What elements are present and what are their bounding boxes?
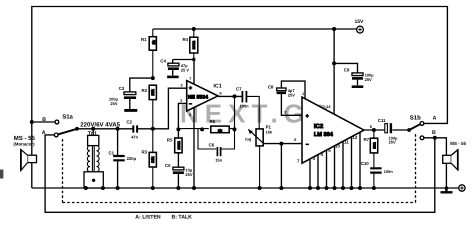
svg-text:+: +	[189, 86, 192, 92]
switch S1b	[407, 122, 424, 140]
svg-text:C11: C11	[378, 118, 386, 123]
svg-text:R2: R2	[142, 88, 148, 93]
node C1 tap	[116, 127, 120, 131]
svg-text:3: 3	[181, 83, 183, 87]
transformer Tr1	[84, 129, 105, 190]
svg-text:C9: C9	[344, 67, 350, 72]
capacitor C1 220u	[113, 129, 125, 190]
wire S1a pole to signal node	[77, 88, 187, 129]
wire bottom interconnect (S1a A to S1b B)	[45, 135, 435, 212]
wire S1a B contact	[32, 121, 55, 123]
svg-text:11: 11	[344, 139, 349, 144]
svg-text:B: B	[432, 130, 436, 136]
svg-text:2: 2	[284, 110, 286, 114]
supply rail 15V	[153, 28, 357, 30]
svg-text:A: A	[42, 130, 46, 136]
svg-text:Tr 1: Tr 1	[88, 131, 97, 137]
resistor R3 22k	[149, 129, 156, 190]
svg-text:MS - 55: MS - 55	[450, 141, 466, 146]
svg-text:NE 5534: NE 5534	[188, 94, 208, 100]
potentiometer P1 10k log	[248, 129, 264, 190]
wire left speaker to S1a B junction	[31, 122, 33, 188]
svg-text:R7: R7	[364, 137, 370, 142]
node supply rail pin14	[332, 27, 336, 31]
svg-text:IC1: IC1	[213, 83, 221, 89]
svg-text:R5: R5	[167, 138, 173, 143]
svg-text:7: 7	[189, 77, 191, 81]
node R6 right	[233, 127, 237, 131]
node C3 tap	[151, 76, 155, 80]
wire IC1 output	[218, 95, 242, 97]
svg-text:100Ω: 100Ω	[177, 141, 181, 150]
resistor R7 10	[370, 130, 377, 167]
capacitor C3 100u 25V	[124, 78, 153, 110]
pin 4 wire IC1 to ground	[193, 108, 195, 188]
wire pin6 node to ground	[280, 144, 282, 188]
wire wiper to IC2 pin 6	[264, 143, 302, 145]
svg-text:S1a: S1a	[62, 113, 73, 120]
svg-text:100n: 100n	[240, 103, 250, 108]
resistor R5 100	[175, 138, 182, 153]
svg-text:IC2: IC2	[314, 123, 324, 130]
svg-text:6: 6	[294, 138, 296, 142]
svg-text:A: LISTEN: A: LISTEN	[135, 215, 161, 221]
resistor R6 1k	[178, 126, 234, 133]
node pin6 ground drop	[279, 142, 283, 146]
svg-text:log: log	[245, 136, 252, 141]
svg-text:15n: 15n	[215, 157, 222, 162]
svg-text:25V: 25V	[110, 101, 117, 106]
svg-text:C6: C6	[209, 142, 215, 147]
resistor R4 100	[190, 27, 198, 62]
svg-text:22k: 22k	[151, 88, 155, 95]
svg-text:100Ω: 100Ω	[192, 41, 196, 50]
resistor R1 1k	[149, 29, 156, 78]
terminal ground bottom right	[459, 185, 465, 191]
svg-text:47n: 47n	[131, 135, 138, 140]
svg-text:C1: C1	[109, 151, 115, 156]
ground symbol bottom right	[441, 188, 453, 192]
op-amp IC1 NE5534	[187, 81, 218, 111]
capacitor C5 10u 25V	[173, 153, 184, 190]
svg-text:8: 8	[370, 125, 372, 129]
svg-text:R1: R1	[141, 37, 147, 42]
svg-text:R6: R6	[210, 119, 216, 124]
capacitor C7 100n	[242, 91, 259, 129]
amp IC2 LM384	[302, 97, 364, 163]
node signal-transformer	[91, 127, 95, 131]
node pin6 ground	[279, 186, 283, 190]
svg-text:(Monacor): (Monacor)	[13, 141, 35, 146]
node pin4 ground	[192, 186, 196, 190]
svg-text:25 V: 25 V	[181, 68, 190, 73]
wire IC2 output	[364, 129, 409, 131]
svg-text:+: +	[306, 113, 309, 119]
svg-text:220µ: 220µ	[127, 156, 137, 161]
speaker LS1 MS-55 left	[21, 150, 37, 171]
scan smudge left edge	[0, 170, 3, 179]
svg-text:10: 10	[335, 144, 340, 149]
wire top loop (S1b A to left speaker)	[32, 7, 448, 124]
svg-text:6: 6	[220, 92, 222, 96]
svg-text:15V: 15V	[355, 19, 365, 25]
svg-text:C5: C5	[165, 163, 171, 168]
node R4/C4/pin7	[192, 58, 195, 61]
svg-text:C4: C4	[160, 59, 166, 64]
svg-text:S1b: S1b	[410, 114, 421, 121]
svg-text:22k: 22k	[151, 156, 155, 163]
svg-text:100n: 100n	[384, 169, 394, 174]
node right speaker ground	[445, 186, 448, 189]
svg-text:−: −	[306, 142, 309, 148]
capacitor C10 100n	[370, 168, 381, 190]
svg-text:25V: 25V	[389, 140, 396, 145]
capacitor C6 15n	[198, 96, 235, 156]
node bias divider	[151, 127, 155, 131]
wire ground rail	[32, 187, 459, 189]
switch S1a	[54, 120, 79, 137]
svg-text:R4: R4	[183, 37, 189, 42]
node R6 left	[176, 127, 180, 131]
capacitor C4 47u 25V	[167, 60, 194, 77]
wire S1b B to right speaker	[424, 138, 446, 188]
svg-text:1: 1	[302, 92, 304, 96]
node feedback tap	[233, 94, 237, 98]
svg-text:220V/6V 4VA5: 220V/6V 4VA5	[80, 121, 120, 128]
capacitor C9 100u 25V	[334, 63, 363, 86]
node C9 tap	[332, 61, 336, 65]
node C6 left	[200, 127, 204, 131]
speaker LS2 MS-55 right	[443, 150, 458, 170]
node interconnect joins B wire	[433, 136, 437, 140]
svg-text:C8: C8	[268, 85, 274, 90]
capacitor C2 47n	[133, 125, 137, 132]
svg-text:B: B	[42, 117, 46, 123]
svg-text:R3: R3	[142, 150, 148, 155]
IC2 ground pins 7,3,4,5,10,11,12	[308, 132, 362, 190]
svg-text:25V: 25V	[365, 77, 372, 82]
svg-text:12: 12	[352, 135, 357, 140]
capacitor C11 100u 25V	[385, 123, 391, 133]
svg-text:A: A	[433, 115, 437, 121]
svg-text:LM 384: LM 384	[314, 132, 334, 138]
svg-text:C3: C3	[119, 86, 125, 91]
svg-text:C7: C7	[236, 86, 242, 91]
terminal 15V	[357, 26, 364, 33]
resistor R2 22k	[149, 85, 156, 129]
svg-text:10Ω: 10Ω	[372, 142, 376, 149]
pin 14 wire IC2	[333, 29, 335, 114]
pin 7 wire IC1	[193, 60, 195, 85]
capacitor C8 4u7 25V	[277, 81, 305, 115]
svg-text:−: −	[189, 102, 192, 108]
svg-text:C10: C10	[361, 161, 370, 166]
node junction B-left	[30, 120, 34, 124]
svg-text:C2: C2	[126, 119, 132, 124]
svg-text:B: TALK: B: TALK	[172, 215, 193, 221]
node R7 tap	[372, 128, 376, 132]
svg-text:25V: 25V	[288, 93, 295, 98]
pin 2 wire IC1	[178, 103, 186, 138]
svg-text:25V: 25V	[185, 172, 192, 177]
svg-text:2: 2	[180, 99, 182, 103]
dashed linkage lines	[63, 133, 416, 203]
svg-text:7: 7	[297, 159, 300, 164]
svg-text:10k: 10k	[266, 130, 273, 135]
